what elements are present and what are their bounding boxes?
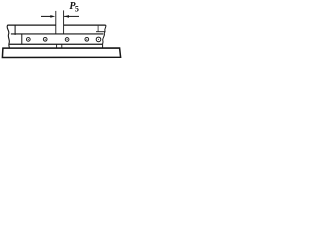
thin strip right end vertical (102, 44, 104, 48)
extension line left (slot wall upper) (55, 11, 57, 34)
hole 3 (65, 38, 69, 42)
right lower wavy edge (103, 34, 105, 44)
dimension line left segment (41, 15, 51, 17)
dimension line right segment (64, 15, 79, 17)
lower seam joint x=21.8 (21, 34, 23, 44)
right end upper edge wavy (104, 25, 106, 34)
key right edge (61, 44, 63, 48)
base slab (2, 48, 120, 58)
bar bottom edge (9, 43, 102, 45)
key left edge (56, 44, 58, 48)
right block upper seam (97, 25, 99, 32)
seam between plates y=33.9 (11, 33, 104, 35)
svg-text:5: 5 (75, 4, 79, 13)
hole 1 (26, 38, 30, 42)
top plate top edge left of slot (7, 24, 55, 26)
hole 4 (85, 37, 89, 41)
upper seam joint x=15.1 (14, 25, 16, 35)
right block step line (96, 31, 105, 33)
top plate top edge right of slot (64, 24, 106, 26)
arrowhead pointing left (64, 15, 69, 18)
wavy break line left end (7, 25, 9, 48)
hole 2 (43, 37, 47, 41)
hole 5 (96, 37, 101, 42)
extension line right (slot wall upper) (63, 10, 65, 34)
arrowhead pointing right (50, 15, 55, 18)
